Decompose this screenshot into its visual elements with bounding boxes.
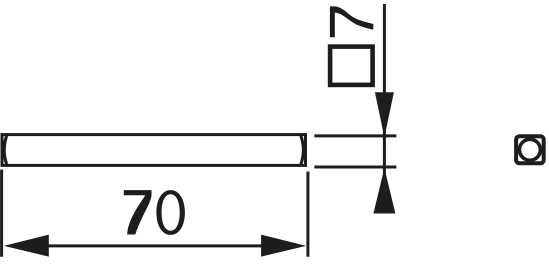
extension line left (70 dim) <box>0 170 3 257</box>
dim text 70 : digit 7 <box>124 190 152 234</box>
left chamfer arc <box>4 136 6 164</box>
arrowhead down (top of 7 dim) <box>375 92 394 137</box>
arrowhead right <box>261 235 306 257</box>
extension stub bottom (7 dim) <box>314 166 396 169</box>
dim text 70 : digit 0 <box>156 190 185 235</box>
arrowhead up (bottom of 7 dim) <box>373 168 395 214</box>
arrowhead left <box>4 235 49 257</box>
rotated digit 7 of dim text <box>330 6 373 37</box>
extension line right (70 dim) <box>306 172 309 257</box>
cross-section inscribed circle <box>519 139 540 160</box>
cross-section square <box>516 136 544 163</box>
dimension line 7 (vertical) <box>383 4 386 214</box>
extension stub top (7 dim) <box>314 134 396 137</box>
spindle body outline <box>2 135 306 166</box>
right chamfer arc <box>301 136 304 164</box>
square symbol of dim text (rotated) <box>330 47 373 85</box>
dimension line 70 <box>45 244 264 247</box>
